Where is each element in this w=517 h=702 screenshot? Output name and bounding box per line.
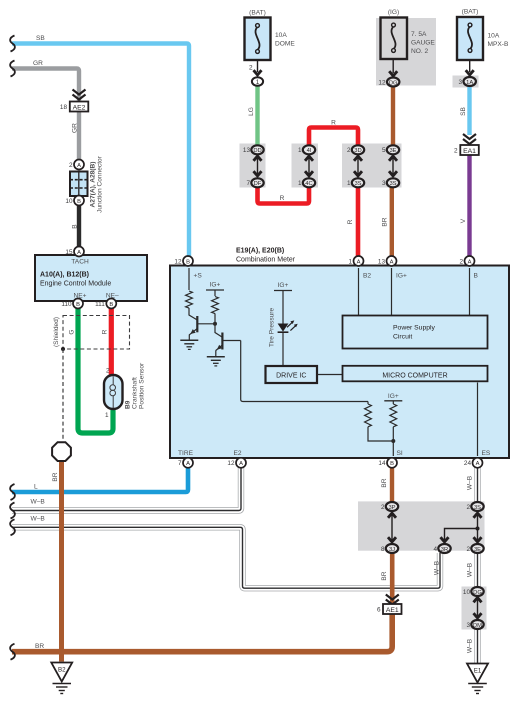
- connector oval 4I: [303, 145, 315, 154]
- svg-text:(BAT): (BAT): [249, 10, 266, 17]
- wire SB (fuse MPX-B to EA1): [467, 87, 471, 136]
- wire LED to drive IC: [282, 333, 284, 366]
- IG+ rail (tire pressure LED): [274, 291, 292, 324]
- svg-text:2: 2: [381, 504, 385, 511]
- svg-text:7: 7: [246, 180, 250, 187]
- wire micro computer to ES pin: [477, 383, 479, 457]
- meter pin 7 A (TIRE): [178, 458, 193, 468]
- connector oval 3S (upper second): [387, 178, 399, 187]
- svg-text:NO. 2: NO. 2: [411, 48, 429, 55]
- connector oval 3J: [386, 544, 398, 553]
- svg-text:3S: 3S: [474, 505, 481, 511]
- svg-text:13: 13: [378, 258, 386, 265]
- junction node on 3S-3E column: [476, 527, 480, 531]
- wire R (ECM NE- to sensor pin 2): [109, 306, 114, 376]
- meter pin 2 A (B): [459, 256, 474, 266]
- wire V (EA1 to meter pin B): [467, 156, 471, 257]
- ECM pin 110 B (NE+): [61, 299, 83, 309]
- connector pair arrows 4I-4C: [305, 156, 313, 177]
- wire break squiggle SB: [10, 36, 15, 52]
- svg-text:B2: B2: [58, 667, 66, 674]
- svg-text:2: 2: [459, 258, 463, 265]
- svg-text:10: 10: [65, 198, 73, 205]
- svg-text:R: R: [280, 195, 285, 202]
- connector oval DD: [251, 145, 263, 154]
- resistor R3 (drive line to SI): [365, 402, 394, 442]
- wire break squiggle L: [10, 484, 15, 500]
- svg-text:3R: 3R: [441, 547, 448, 553]
- connector pair arrows 3D-3S: [354, 156, 362, 177]
- wire BR (octagon shield to ground B2): [59, 460, 64, 662]
- svg-text:3S: 3S: [389, 181, 396, 187]
- connector oval DM: [471, 620, 483, 629]
- shield dashed drain wire: [62, 349, 64, 441]
- svg-text:E1: E1: [474, 668, 482, 675]
- ground (Q2 emitter): [207, 357, 225, 366]
- svg-text:B9: B9: [125, 400, 132, 409]
- gray box connectors 4I/4C: [292, 144, 319, 188]
- svg-text:1: 1: [348, 258, 352, 265]
- svg-text:SB: SB: [36, 35, 45, 42]
- gray box connectors DG/DM: [462, 587, 487, 630]
- svg-text:8: 8: [381, 546, 385, 553]
- svg-text:SI: SI: [397, 450, 403, 457]
- svg-text:DRIVE IC: DRIVE IC: [276, 372, 306, 379]
- node (Q1 base / Q2 drive): [213, 322, 217, 326]
- svg-text:BR: BR: [381, 478, 388, 487]
- svg-text:B: B: [474, 273, 479, 280]
- svg-text:+S: +S: [194, 273, 203, 280]
- ECM pin 15 A (TACH): [65, 247, 84, 257]
- svg-text:BR: BR: [382, 217, 389, 226]
- svg-text:4: 4: [433, 546, 437, 553]
- svg-text:A10(A), B12(B): A10(A), B12(B): [40, 272, 89, 279]
- resistor R1 (+S input): [186, 291, 193, 308]
- wire R (4I to 3D): [309, 128, 358, 146]
- svg-text:W–B: W–B: [467, 638, 474, 653]
- svg-text:A: A: [77, 163, 81, 169]
- svg-text:DM: DM: [473, 623, 482, 629]
- wire R4 to SI node: [392, 427, 394, 441]
- svg-text:5: 5: [382, 147, 386, 154]
- fuse pin 3 lead arrow into connector 1A: [466, 70, 474, 75]
- in-line connector AE2 (chevron + box): [70, 90, 89, 112]
- svg-text:A27(A), A28(B): A27(A), A28(B): [90, 162, 97, 208]
- svg-text:1: 1: [347, 180, 351, 187]
- wire node to Q2 base: [215, 324, 222, 337]
- wire W-B (left edge to meter pin E2): [12, 466, 241, 511]
- svg-text:3E: 3E: [474, 547, 481, 553]
- svg-text:14: 14: [378, 460, 386, 467]
- connector oval 3S (upper): [352, 178, 364, 187]
- svg-text:DOME: DOME: [275, 41, 295, 48]
- meter pin 13 A (IG+): [378, 256, 397, 266]
- ground B2: [51, 663, 72, 694]
- svg-text:3: 3: [382, 180, 386, 187]
- svg-text:V: V: [460, 218, 467, 223]
- svg-text:1: 1: [298, 180, 302, 187]
- svg-text:DF: DF: [254, 181, 262, 187]
- fuse 10A MPX-B: [457, 17, 483, 72]
- svg-text:10: 10: [463, 589, 471, 596]
- svg-text:B: B: [390, 461, 394, 467]
- junction connector A27/A28 box: [70, 172, 88, 197]
- svg-text:110: 110: [61, 301, 72, 308]
- ECM pin 111 B (NE-): [95, 299, 116, 309]
- octagon shield terminal: [52, 442, 71, 461]
- ground E1: [467, 664, 488, 694]
- svg-text:2: 2: [69, 162, 73, 169]
- svg-text:1A: 1A: [466, 80, 473, 86]
- meter internal wire +S to resistor: [188, 268, 190, 290]
- fuse pin 2 lead arrow into connector 1: [254, 70, 262, 75]
- wire W-B (meter pin ES to 3S): [474, 466, 480, 502]
- IG+ rail (SI network): [384, 401, 402, 404]
- connector oval DG (below GAUGE fuse): [387, 78, 399, 87]
- wire R (DF to 4C): [258, 188, 310, 204]
- fuse 10A DOME: [245, 18, 271, 73]
- connector column 3S-3E with branch to 3R: [474, 513, 482, 543]
- node SI: [391, 439, 395, 443]
- svg-text:W–B: W–B: [31, 499, 46, 506]
- svg-text:A: A: [476, 461, 480, 467]
- fuse 7.5A GAUGE NO.2: [381, 18, 408, 74]
- svg-text:3D: 3D: [354, 148, 361, 154]
- wire SB (fuse MPX-B branch, top-left run): [12, 44, 189, 257]
- svg-text:BR: BR: [381, 571, 388, 580]
- engine control module box A10/B12: [35, 255, 147, 301]
- svg-text:B: B: [77, 199, 81, 205]
- svg-text:2: 2: [466, 546, 470, 553]
- transistor Q1: [189, 316, 215, 340]
- gray strip around connector 1A: [453, 76, 479, 88]
- svg-text:R: R: [347, 219, 354, 224]
- gray box connectors 3P/3J/3S/3E/3R: [358, 501, 485, 550]
- IG+ rail (Q2 branch): [206, 290, 224, 296]
- wire B pin to power supply: [469, 268, 471, 315]
- crankshaft position sensor B9: [104, 375, 123, 409]
- svg-text:4C: 4C: [305, 181, 312, 187]
- svg-text:DG: DG: [473, 590, 482, 596]
- svg-text:B2: B2: [363, 273, 371, 280]
- connector oval DF: [251, 178, 263, 187]
- svg-text:3E: 3E: [389, 148, 396, 154]
- svg-text:SB: SB: [460, 107, 467, 116]
- svg-text:IG+: IG+: [388, 393, 399, 400]
- svg-text:DG: DG: [389, 80, 398, 86]
- meter pin 14 B (SI): [378, 458, 397, 468]
- resistor R4 (IG+ to SI): [390, 404, 397, 427]
- shield dashed box around G and R wires: [63, 316, 130, 350]
- svg-text:Power Supply: Power Supply: [393, 325, 436, 332]
- svg-text:15: 15: [65, 249, 73, 256]
- svg-text:3: 3: [466, 622, 470, 629]
- svg-text:MICRO COMPUTER: MICRO COMPUTER: [382, 372, 447, 379]
- wire L (left edge to meter pin TIRE): [12, 466, 188, 492]
- svg-text:G: G: [69, 329, 76, 334]
- meter pin 12 B (+S): [174, 256, 193, 266]
- combination meter box E19/E20: [170, 266, 509, 459]
- svg-text:Position Sensor: Position Sensor: [139, 362, 146, 409]
- svg-text:GR: GR: [33, 60, 43, 67]
- svg-text:(BAT): (BAT): [462, 9, 479, 16]
- connector oval 1A (below MPX-B fuse): [464, 77, 476, 86]
- wire resistor to Q1 collector: [189, 308, 197, 320]
- svg-text:E19(A), E20(B): E19(A), E20(B): [236, 248, 284, 255]
- svg-text:B: B: [76, 302, 80, 308]
- wire BR (3S to meter pin IG+): [390, 188, 394, 257]
- svg-text:24: 24: [464, 460, 472, 467]
- LED tire pressure indicator: [278, 320, 298, 332]
- svg-text:Circuit: Circuit: [393, 334, 412, 341]
- svg-text:Junction Connector: Junction Connector: [97, 155, 104, 213]
- connector pair arrows 3E-3S: [389, 156, 397, 177]
- svg-text:2: 2: [466, 504, 470, 511]
- svg-text:3S: 3S: [354, 181, 361, 187]
- connector oval 3P: [386, 502, 398, 511]
- svg-text:TACH: TACH: [71, 259, 89, 266]
- connector oval 1 (below DOME fuse): [252, 77, 263, 86]
- svg-text:1: 1: [298, 147, 302, 154]
- connector oval 3E (upper): [387, 145, 399, 154]
- svg-text:7: 7: [178, 460, 182, 467]
- svg-text:2: 2: [249, 65, 253, 72]
- wire W-B (DM to ground E1): [474, 629, 480, 663]
- svg-text:IG+: IG+: [210, 282, 221, 289]
- svg-text:LG: LG: [248, 107, 255, 116]
- svg-text:Engine Control Module: Engine Control Module: [40, 281, 111, 288]
- svg-text:2: 2: [347, 147, 351, 154]
- svg-text:W–B: W–B: [31, 516, 46, 523]
- meter pin 12 A (E2): [227, 458, 246, 468]
- svg-text:EA1: EA1: [463, 148, 476, 155]
- ground (Q1 emitter): [180, 340, 198, 349]
- wire GR (top-left run to AE2): [12, 69, 79, 161]
- svg-text:18: 18: [60, 104, 68, 111]
- svg-text:E2: E2: [234, 450, 242, 457]
- svg-text:W–B: W–B: [434, 560, 441, 575]
- svg-text:Crankshaft: Crankshaft: [132, 377, 139, 409]
- gray box connectors 3D/3E/3S: [342, 144, 402, 188]
- svg-text:Combination Meter: Combination Meter: [236, 257, 296, 264]
- svg-text:3: 3: [458, 79, 462, 86]
- svg-text:IG+: IG+: [278, 282, 289, 289]
- svg-text:A: A: [186, 461, 190, 467]
- wire LG (fuse DOME to DD): [255, 87, 259, 146]
- power supply circuit box: [343, 316, 488, 349]
- connector oval 4C: [303, 178, 315, 187]
- fuse pin 12 lead arrow into connector DG: [389, 71, 397, 76]
- svg-text:W–B: W–B: [467, 562, 474, 577]
- svg-text:(IG): (IG): [388, 9, 399, 16]
- wire break squiggle W-B upper: [10, 503, 15, 519]
- svg-text:B: B: [72, 224, 79, 229]
- wire IG+ pin to power supply: [391, 268, 393, 315]
- svg-text:111: 111: [95, 301, 105, 308]
- wire resistor to node: [214, 314, 216, 324]
- svg-text:L: L: [34, 484, 38, 491]
- svg-text:W–B: W–B: [467, 475, 474, 490]
- svg-text:3P: 3P: [388, 505, 395, 511]
- svg-text:A: A: [468, 259, 472, 265]
- junction connector pin 2 A: [69, 160, 84, 170]
- svg-text:10A: 10A: [488, 33, 500, 40]
- svg-text:10A: 10A: [275, 32, 287, 39]
- wire W-B (3E to DG): [474, 553, 480, 588]
- wire BR (fuse GAUGE DG to 3E): [391, 88, 395, 146]
- in-line connector EA1 (chevron + box): [460, 134, 479, 155]
- svg-text:4I: 4I: [307, 148, 312, 154]
- svg-text:(Shielded): (Shielded): [53, 317, 60, 347]
- svg-text:TIRE: TIRE: [178, 450, 194, 457]
- drive IC box: [266, 366, 318, 383]
- gray box connectors DD/DF: [240, 144, 266, 188]
- svg-text:A: A: [77, 250, 81, 256]
- svg-text:6: 6: [377, 607, 381, 614]
- svg-text:BR: BR: [35, 643, 44, 650]
- svg-text:12: 12: [174, 258, 182, 265]
- wire G (ECM NE+ to sensor pin 1): [78, 306, 113, 433]
- svg-text:2: 2: [106, 368, 110, 375]
- transistor Q2: [216, 333, 241, 357]
- wire break squiggle GR: [10, 61, 15, 77]
- connector pair arrows DG-DM: [474, 598, 482, 619]
- svg-text:1: 1: [105, 412, 109, 419]
- svg-text:DD: DD: [253, 148, 261, 154]
- connector pair arrows 3P-3J: [388, 513, 396, 543]
- svg-text:12: 12: [378, 80, 386, 87]
- svg-text:12: 12: [227, 460, 235, 467]
- wire B (junction connector to ECM pin 15): [77, 206, 81, 248]
- connector oval DG (lower): [471, 587, 483, 596]
- meter pin 24 A (ES): [464, 458, 483, 468]
- svg-text:Tire Pressure: Tire Pressure: [269, 308, 276, 348]
- branch wire to 3R: [441, 529, 478, 543]
- resistor R2 (IG+ pull-up): [212, 297, 219, 314]
- gray box around GAUGE fuse: [376, 18, 436, 86]
- svg-text:7. 5A: 7. 5A: [411, 31, 427, 38]
- svg-text:NE–: NE–: [106, 293, 119, 300]
- svg-text:B: B: [109, 302, 113, 308]
- shield node dot: [61, 347, 65, 351]
- svg-text:B: B: [186, 259, 190, 265]
- svg-text:IG+: IG+: [396, 273, 407, 280]
- svg-text:BR: BR: [52, 472, 59, 481]
- in-line connector AE1 (chevron + box): [383, 595, 402, 615]
- connector oval 3R: [438, 544, 450, 553]
- svg-text:AE2: AE2: [73, 104, 86, 111]
- wire drive IC to micro computer: [318, 374, 343, 376]
- svg-text:AE1: AE1: [386, 607, 399, 614]
- connector oval 3E (lower): [471, 544, 483, 553]
- meter pin 1 A (B2): [348, 256, 363, 266]
- connector pair arrows DD-DF: [254, 156, 262, 177]
- wire node to SI pin: [392, 441, 394, 456]
- svg-text:MPX-B: MPX-B: [488, 41, 509, 48]
- svg-text:A: A: [390, 259, 394, 265]
- svg-text:3J: 3J: [389, 547, 395, 553]
- svg-text:GAUGE: GAUGE: [411, 40, 435, 47]
- svg-text:GR: GR: [72, 123, 79, 133]
- wire B2 pin to power supply: [358, 268, 360, 315]
- svg-text:13: 13: [243, 147, 251, 154]
- svg-text:A: A: [239, 461, 243, 467]
- svg-text:A: A: [357, 259, 361, 265]
- svg-text:NE+: NE+: [73, 293, 86, 300]
- micro computer box: [343, 366, 488, 382]
- junction connector pin 10 B: [65, 196, 84, 206]
- svg-text:ES: ES: [482, 450, 491, 457]
- connector oval 3D: [352, 145, 364, 154]
- wire BR (3J to AE1): [390, 553, 395, 647]
- svg-text:R: R: [331, 120, 336, 127]
- wire break squiggle W-B lower: [10, 519, 15, 535]
- svg-text:R: R: [102, 329, 109, 334]
- wire Q2 collector to SI resistor network: [241, 341, 368, 402]
- connector oval 3S (lower): [471, 502, 483, 511]
- wire BR (AE1 down and across to left edge): [12, 609, 392, 652]
- wire W-B (left edge to connector 3R): [12, 527, 440, 588]
- wire break squiggle BR: [10, 644, 15, 660]
- wire R (3S to meter pin B2): [356, 188, 361, 257]
- wire BR (meter pin SI to 3P): [390, 466, 394, 502]
- svg-text:2: 2: [454, 148, 458, 155]
